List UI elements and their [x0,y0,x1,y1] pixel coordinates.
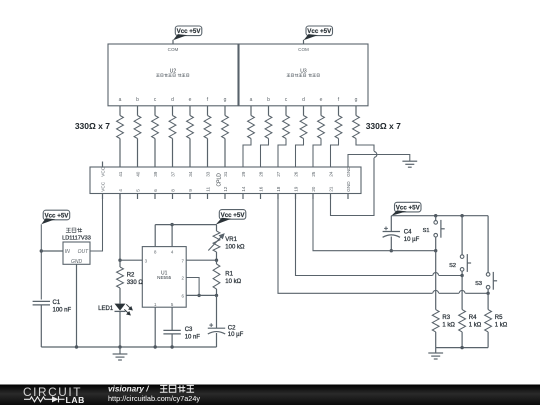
svg-text:R4: R4 [469,315,477,321]
svg-text:C3: C3 [185,327,193,333]
wire C4 to wire A [390,237,392,251]
node gnd rail / C3 [170,345,173,348]
wire regulator OUT to CPLD VCC [90,194,103,252]
wire U2 pin c to resistor [154,106,156,116]
svg-text:visionary /: visionary / [108,385,149,394]
wire U3 pin d to resistor [303,106,305,116]
resistor R5 [485,310,492,332]
svg-text:1 kΩ: 1 kΩ [495,322,508,328]
wire resistor jog to CPLD pin 26 [296,139,304,168]
wire switch bottom rail [436,347,488,349]
LED1 diode [115,304,126,312]
capacitor C4 10uF (polarized) [383,227,400,238]
ground symbol (switch rail) [428,353,443,359]
wire U1 pin 8 up [154,225,156,247]
wire node to R1 [216,260,218,264]
resistor 330ohm (U2 segment g) [222,116,229,139]
wire switch Vcc rail [391,215,488,217]
svg-text:IN: IN [65,249,70,255]
ground symbol (CPLD GND) [402,161,417,167]
svg-text:LD1117V33: LD1117V33 [62,236,91,242]
wire R4 to bottom rail [461,332,463,348]
svg-text:27: 27 [276,171,281,177]
CPLD bottom pin 21 stub [330,194,332,200]
switch S1 (pushbutton) [434,220,445,238]
node Vcc rail / S2 [460,214,463,217]
wire LED1 to ground rail [119,311,121,347]
node R1/C2/pin6 [215,294,218,297]
op-amp/timer U1 NE555 body [142,247,186,308]
node pin2/pin6 tie [197,294,200,297]
wire resistor jog to CPLD pin 25 [313,139,321,168]
svg-text:18: 18 [276,186,281,192]
CPLD bottom pin 11 stub [207,194,209,200]
wire S3 to node C [487,289,489,293]
CPLD U4 body [90,167,361,194]
wire CPLD pin 19 to S2 node (wire B) [296,194,463,276]
wire resistor jog to CPLD pin 28 [261,139,269,168]
svg-text:R5: R5 [495,315,503,321]
svg-text:b: b [267,97,270,103]
power flag Vcc +5V for U3 COM [304,26,333,40]
CPLD bottom VCC pin stub [102,194,104,200]
switch S3 (pushbutton) [486,272,497,290]
node regulator IN junction [40,249,43,252]
wire U2 pin f to resistor [207,106,209,116]
CPLD bottom pin 19 stub [295,194,297,200]
svg-text:330 Ω: 330 Ω [127,280,144,286]
wire U1 pin 1 to ground rail [154,307,156,347]
svg-text:Vcc +5V: Vcc +5V [177,28,202,35]
resistor R1 [213,264,220,289]
svg-text:NE555: NE555 [157,275,171,280]
CPLD bottom pin 8 stub [172,194,174,200]
wire resistor to CPLD pin 33 [207,139,209,168]
svg-text:28: 28 [258,171,263,177]
node C4 / wire A [390,249,393,252]
power flag Vcc +5V for switches [391,202,421,215]
svg-text:a: a [250,97,253,103]
capacitor C1 100nF [33,301,50,305]
svg-text:LAB: LAB [66,395,85,405]
svg-text:COM: COM [168,47,179,52]
wire resistor to CPLD pin 41 [119,139,121,168]
wire R1 to node [216,289,218,295]
wire CPLD pin 4 down to node [119,194,121,261]
node gnd rail / LED [118,345,121,348]
svg-text:VCC: VCC [100,181,105,192]
svg-text:29: 29 [241,171,246,177]
wire ground stub [119,347,121,354]
svg-text:COM: COM [298,47,309,52]
node gnd rail / regulator [75,345,78,348]
svg-text:16: 16 [258,186,263,192]
svg-text:19: 19 [293,186,298,192]
svg-text:S1: S1 [423,228,430,234]
svg-text:41: 41 [118,171,123,177]
node gnd rail / pin1 [154,345,157,348]
svg-text:1 kΩ: 1 kΩ [469,322,482,328]
svg-text:Vcc +5V: Vcc +5V [396,205,421,212]
wire S2 to node B [461,271,463,275]
svg-text:24: 24 [328,171,333,177]
LED1 emission arrows [124,304,132,315]
wire U3 pin e to resistor [320,106,322,116]
wire node A down to R3 [435,251,437,310]
resistor 330ohm (U2 segment e) [187,116,194,139]
resistor 330ohm (U2 segment d) [169,116,176,139]
wire U2 pin a to resistor [119,106,121,116]
switch S2 (pushbutton) [460,254,471,272]
wire Vcc rail corner to S3 [487,216,489,273]
node S1 / R3 / wire A [434,249,437,252]
resistor 330ohm (U3 segment c) [283,116,290,139]
svg-text:21: 21 [328,186,333,192]
svg-text:e: e [320,97,323,103]
regulator chinese label (voltage regulator) [66,228,82,233]
svg-text:S2: S2 [449,263,456,269]
wire hop where g wire crosses GND wire [374,152,377,158]
resistor 330ohm (U2 segment b) [134,116,141,139]
svg-text:g: g [224,97,227,103]
U3 part name (7-seg display, common anode) [287,74,320,77]
svg-text:S3: S3 [475,281,482,287]
svg-text:10 µF: 10 µF [228,332,244,338]
wire U3 COM stub [303,40,305,44]
wire Vcc rail to VR1 top [155,224,216,226]
svg-text:37: 37 [170,171,175,177]
wire R5 to bottom rail [487,332,489,348]
wire U1 pin 6 to R1/C2 node [186,294,216,296]
wire to regulator IN [41,250,63,252]
svg-text:5: 5 [135,189,140,192]
wire R3 to bottom rail [435,332,437,348]
wire U1 pin 4 up [171,225,173,247]
node Vcc rail / S1 [434,214,437,217]
resistor 330ohm (U3 segment g) [353,116,360,139]
CPLD bottom pin 4 stub [119,194,121,200]
wire resistor jog to CPLD pin 27 [278,139,286,168]
svg-text:GND: GND [346,166,351,177]
ground symbol (main rail) [113,354,128,360]
wire U2 COM stub [172,40,174,44]
node S2 / R4 / wire B [460,274,463,277]
resistor 330ohm (U2 segment a) [117,116,124,139]
wire U3 pin g to resistor [355,106,357,116]
wire node to C2 [216,295,218,328]
svg-text:R3: R3 [442,315,450,321]
wire Vcc flag down to C1 (upper) [40,224,42,299]
wire resistor to CPLD pin 40 [137,139,139,168]
CPLD top VCC pin stub [102,162,104,168]
CPLD bottom pin 20 stub [312,194,314,200]
CPLD bottom pin 12 stub [224,194,226,200]
potentiometer VR1 wiper arrow [208,234,224,251]
svg-text:C1: C1 [53,300,61,306]
svg-text:GND: GND [346,181,351,192]
wire hop C over S1 branch [433,290,439,293]
node VR1/R1/pin7 [215,259,218,262]
CPLD bottom pin 16 stub [260,194,262,200]
resistor 330ohm (U3 segment d) [300,116,307,139]
wire node to R2 [119,260,121,267]
capacitor C2 10uF (polarized) [208,323,225,334]
7-segment display U2 body [108,44,238,106]
svg-text:12: 12 [223,186,228,192]
svg-text:VR1: VR1 [225,237,237,243]
svg-text:330Ω x 7: 330Ω x 7 [366,121,401,131]
svg-text:d: d [171,97,174,103]
wire U2 pin b to resistor [137,106,139,116]
svg-text:4: 4 [118,189,123,192]
svg-text:1 kΩ: 1 kΩ [442,322,455,328]
resistor 330ohm (U3 segment b) [265,116,272,139]
wire Vcc rail to C4 [390,216,392,232]
wire resistor jog to CPLD pin 29 [243,139,251,168]
CPLD bottom pin 6 stub [154,194,156,200]
wire Vcc to VR1 [216,225,218,231]
wire C2 to ground rail [216,333,218,347]
svg-text:R1: R1 [225,271,233,277]
svg-text:10 nF: 10 nF [185,335,201,341]
svg-text:Vcc +5V: Vcc +5V [44,212,69,219]
svg-text:VCC: VCC [100,166,105,177]
power flag Vcc +5V for 555/VR1 [216,210,246,225]
wire U1 pin 7 to VR1/R1 node [186,259,216,261]
svg-text:100 kΩ: 100 kΩ [225,244,245,250]
wire U1 pin 5 to C3 [171,307,173,330]
wire node C down to R5 [487,293,489,309]
svg-text:31: 31 [223,171,228,177]
potentiometer VR1 body [213,231,220,252]
wire bottom rail ground stub [435,348,437,353]
wire C3 to ground rail [171,334,173,347]
svg-text:9: 9 [188,189,193,192]
wire C1 to ground rail [40,305,42,347]
node pin4/pin8 Vcc rail junction [170,223,173,226]
CPLD bottom pin 18 stub [277,194,279,200]
svg-text:a: a [119,97,122,103]
svg-text:11: 11 [205,187,210,192]
wire resistor to CPLD pin 34 [189,139,191,168]
svg-text:http://circuitlab.com/cy7a24y: http://circuitlab.com/cy7a24y [108,394,200,403]
CPLD bottom pin 9 stub [189,194,191,200]
resistor 330ohm (U2 segment f) [204,116,211,139]
node bottom rail / R4 [460,346,463,349]
resistor R2 [117,267,124,288]
resistor R3 [432,310,439,332]
svg-text:b: b [136,97,139,103]
wire ground rail [41,346,216,348]
wire node B down to R4 [461,276,463,310]
U2 part name (7-seg display, common anode) [156,74,189,77]
svg-text:10 kΩ: 10 kΩ [225,279,241,285]
svg-text:33: 33 [205,171,210,177]
wire U2 pin g to resistor [224,106,226,116]
wire resistor jog to CPLD pin 24 [331,139,339,168]
wire U3 pin a to resistor [250,106,252,116]
wire U1 pin 3 output [120,259,142,261]
svg-text:39: 39 [153,171,158,177]
svg-text:C2: C2 [228,325,236,331]
wire hop C over S2 branch [459,290,465,293]
resistor 330ohm (U3 segment a) [248,116,255,139]
wire R2 to LED1 [119,288,121,304]
svg-text:C4: C4 [404,230,412,236]
svg-text:GND: GND [71,259,83,265]
wire CPLD pin 20 to S1 node (wire A) [313,194,436,251]
svg-text:OUT: OUT [78,249,90,255]
wire U3 pin b to resistor [268,106,270,116]
svg-text:20: 20 [311,186,316,192]
svg-text:Vcc +5V: Vcc +5V [221,212,246,219]
svg-text:14: 14 [241,186,246,192]
resistor 330ohm (U2 segment c) [152,116,159,139]
wire hop B over S1 branch [433,273,439,276]
svg-text:R2: R2 [127,272,135,278]
svg-text:Vcc +5V: Vcc +5V [307,28,332,35]
wire resistor to CPLD pin 37 [172,139,174,168]
wire U1 pin 2 to threshold node [186,278,199,296]
wire Vcc rail to S1 [435,216,437,221]
svg-text:CPLD: CPLD [216,173,222,187]
wire CPLD pin 18 to S3 node (wire C) [278,194,488,294]
svg-text:34: 34 [188,171,193,177]
wire CPLD GND pin to ground [348,155,410,168]
wire U2 pin d to resistor [172,106,174,116]
power flag Vcc +5V for regulator input [41,210,69,224]
wire S1 to node A [435,237,437,251]
svg-text:330Ω x 7: 330Ω x 7 [75,121,110,131]
resistor 330ohm (U3 segment f) [335,116,342,139]
svg-text:e: e [189,97,192,103]
resistor R4 [459,310,466,332]
wire Vcc rail to S2 [461,216,463,255]
CPLD bottom pin 5 stub [137,194,139,200]
resistor 330ohm (U3 segment e) [318,116,325,139]
svg-text:g: g [355,97,358,103]
node U1 out / R2 / CPLD4 [118,259,121,262]
7-segment display U3 body [239,44,368,106]
CPLD bottom GND pin stub [347,194,349,200]
wire U3 pin c to resistor [285,106,287,116]
wire U3 pin f to resistor [338,106,340,116]
wire resistor to CPLD pin 31 [224,139,226,168]
wire regulator GND down [76,264,78,347]
node S3 / R5 / wire C [486,292,489,295]
voltage regulator U5 LD1117V33 body [63,242,90,264]
footer project title CJK part [160,385,194,392]
wire VR1 to node [216,252,218,260]
svg-text:100 nF: 100 nF [53,307,72,313]
svg-text:26: 26 [293,171,298,177]
svg-text:40: 40 [135,171,140,177]
capacitor C3 10nF [163,330,180,334]
power flag Vcc +5V for U2 COM [173,26,202,40]
svg-text:LED1: LED1 [98,306,114,312]
CPLD bottom pin 14 stub [242,194,244,200]
svg-text:6: 6 [153,189,158,192]
svg-text:8: 8 [170,189,175,192]
wire U3 segment g around CPLD right side to pin 21 [331,139,375,216]
wire U2 pin e to resistor [189,106,191,116]
svg-text:d: d [302,97,305,103]
svg-text:25: 25 [311,171,316,177]
CircuitLab logo circuit squiggle [24,396,65,402]
wire resistor to CPLD pin 39 [154,139,156,168]
svg-text:10 µF: 10 µF [404,237,420,243]
